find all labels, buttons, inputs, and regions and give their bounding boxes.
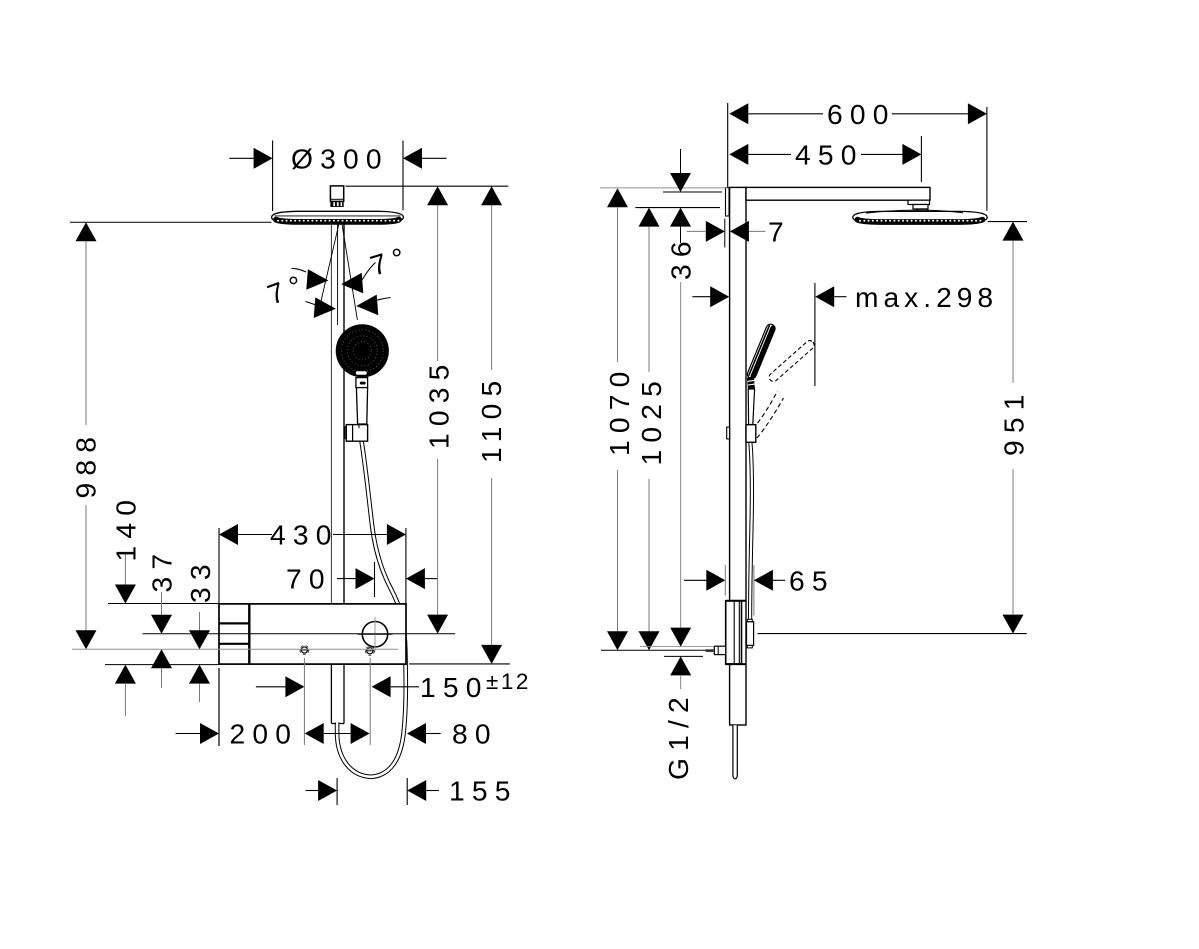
dim 600	[729, 103, 748, 124]
dim 450 tick	[920, 136, 922, 182]
overhead shower head (front view)	[272, 211, 404, 222]
dim max.298 extension line	[814, 283, 816, 386]
valve knob (side, right)	[747, 619, 752, 622]
svg-text:±12: ±12	[486, 669, 531, 694]
svg-text:430: 430	[270, 519, 339, 551]
dim 36 bottom reference line	[635, 207, 720, 209]
dim 36	[680, 149, 682, 174]
dim 450	[729, 144, 748, 165]
valve top extension line	[108, 603, 219, 605]
mounting screw left	[300, 646, 309, 655]
svg-text:200: 200	[230, 718, 299, 750]
7 deg arc arrow lower-right	[356, 295, 378, 316]
svg-text:37: 37	[146, 547, 178, 593]
wall mounting plate (side)	[726, 188, 730, 216]
dim 951	[1003, 222, 1024, 241]
svg-text:988: 988	[70, 430, 102, 499]
svg-text:1035: 1035	[422, 357, 454, 449]
arm end connector steps	[908, 200, 930, 204]
holder bracket (side)	[746, 425, 756, 443]
dim 65 extension lines	[724, 565, 726, 596]
dim 1025	[639, 208, 660, 227]
dim 155	[306, 790, 319, 792]
spray nozzles row (side disc)	[859, 220, 981, 222]
dim 7	[687, 230, 706, 232]
holder clip on bar left	[727, 427, 730, 439]
dim 988 top line	[70, 221, 272, 223]
dashed pivot arcs	[753, 391, 778, 429]
svg-text:70: 70	[286, 563, 332, 595]
thermostat valve body (front)	[219, 604, 406, 664]
screw extension line right	[369, 658, 371, 745]
hand shower neck (front)	[356, 378, 368, 388]
dim 36 top reference line	[663, 191, 722, 193]
dim 988 line	[85, 241, 87, 425]
svg-text:150: 150	[420, 671, 489, 703]
dim 65	[684, 579, 707, 581]
svg-text:33: 33	[184, 557, 216, 603]
dim 430 extension lines	[218, 528, 220, 604]
hand shower holder bracket (front)	[345, 427, 348, 439]
svg-text:1070: 1070	[603, 364, 635, 456]
dim 1105	[481, 186, 502, 205]
valve knob stripes (left grip)	[248, 604, 250, 664]
7 deg arc arrow lower-left	[314, 297, 336, 318]
shower arm (side)	[746, 187, 930, 200]
svg-text:600: 600	[827, 98, 896, 130]
7 deg arc arrow upper-left	[306, 269, 328, 290]
mounting screw right	[365, 646, 374, 655]
dim 430	[219, 524, 238, 545]
dia300 extension line left	[272, 141, 274, 212]
dim 70 tick	[374, 562, 376, 597]
hand shower (side, solid) head	[746, 323, 776, 380]
dim 80	[351, 723, 370, 744]
hand shower handle tube (side)	[748, 389, 754, 425]
overhead shower head (side view)	[853, 210, 987, 223]
outlet tube below bar (side)	[733, 725, 737, 779]
valve bottom extension line right	[409, 663, 510, 665]
screw extension line left	[303, 658, 305, 745]
spray nozzles row (front disc)	[277, 220, 399, 222]
dim 200	[176, 733, 201, 735]
riser pipe (front)	[331, 223, 344, 604]
dia300 extension line right	[402, 141, 404, 211]
svg-text:max.298: max.298	[855, 281, 998, 313]
svg-text:140: 140	[110, 493, 142, 562]
svg-text:36: 36	[665, 234, 697, 280]
wall extension line	[727, 103, 729, 188]
7 deg tilt line right	[342, 224, 357, 320]
top reference line (front view, connector top)	[346, 185, 509, 187]
svg-text:951: 951	[998, 387, 1030, 456]
dim 200 extension line	[218, 668, 220, 746]
dia300 dimension arrows	[229, 157, 254, 159]
svg-text:1025: 1025	[635, 374, 667, 466]
inlet centerline (front)	[72, 648, 398, 650]
pipe centerline	[337, 223, 339, 325]
dim 37	[161, 592, 163, 615]
svg-text:G1/2: G1/2	[662, 690, 694, 780]
hand shower neck (side)	[747, 376, 755, 389]
dim 951 bottom reference line	[758, 633, 1027, 635]
thermostat block (side)	[726, 601, 742, 664]
dim 33	[199, 612, 201, 631]
G1/2 inlet nipple (side)	[714, 646, 725, 654]
dim 140	[124, 552, 126, 585]
dim max.298	[692, 296, 710, 298]
G1/2 nipple dim	[680, 282, 682, 628]
7 deg arc arrow upper-right	[341, 273, 363, 294]
svg-text:155: 155	[449, 775, 518, 807]
dim 7 extension tick	[724, 219, 726, 248]
7 deg tilt line left	[321, 224, 339, 301]
svg-text:Ø300: Ø300	[291, 143, 389, 175]
svg-text:65: 65	[789, 564, 835, 596]
dim 600 extension right	[986, 107, 988, 211]
wall bar (side view)	[730, 187, 746, 725]
valve handle circle (front)	[362, 622, 387, 647]
hand shower hose (front)	[337, 441, 406, 777]
ceiling reference line (side)	[600, 187, 728, 189]
svg-text:450: 450	[795, 138, 864, 170]
ceiling connector (front)	[330, 186, 343, 207]
inlet reference line (side)	[601, 649, 713, 651]
hose (side)	[750, 443, 752, 620]
dim 1070	[607, 188, 628, 207]
svg-text:80: 80	[452, 718, 498, 750]
hand shower handle (front)	[356, 388, 367, 424]
handle centre extension line right	[143, 633, 456, 635]
hand shower head (front, black face)	[336, 324, 389, 377]
dim 1035	[427, 186, 448, 205]
dim 155 extension lines	[336, 778, 338, 805]
hand shower dashed alt position head	[767, 339, 815, 383]
dim 951 top reference line	[988, 221, 1027, 223]
svg-text:1105: 1105	[475, 374, 507, 463]
svg-text:7: 7	[768, 216, 791, 248]
dim 150 +-12	[256, 686, 286, 688]
valve bottom extension line left	[105, 664, 219, 666]
outlet pipe below valve (front)	[331, 664, 344, 723]
